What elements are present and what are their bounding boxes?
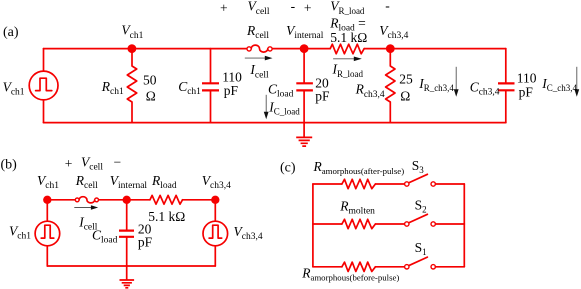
svg-text:pF: pF [315, 89, 330, 104]
svg-text:Vch1: Vch1 [9, 223, 31, 241]
wire: right vertical (b) [214, 200, 216, 266]
svg-text:pF: pF [224, 83, 239, 98]
wire: middle branch right (c) [435, 223, 464, 225]
svg-text:Vch3,4: Vch3,4 [234, 224, 263, 242]
capacitor C_ch1 plates [202, 83, 219, 90]
source V_ch1 (a) pulse glyph [36, 78, 52, 90]
svg-text:Vch3,4: Vch3,4 [202, 173, 231, 191]
switch S1 right circle [431, 265, 435, 269]
current arrow I_cell (b) [74, 207, 91, 209]
resistor R_load (b) zigzag [150, 195, 183, 204]
cell symbol R_cell (a) wavy [251, 45, 268, 52]
current arrow I_C_load (a) [265, 95, 267, 113]
svg-text:Rch1: Rch1 [101, 79, 124, 97]
node V_ch1 (a) dot [127, 44, 136, 53]
svg-text:5.1 kΩ: 5.1 kΩ [330, 30, 367, 45]
svg-text:Cch3,4: Cch3,4 [470, 79, 500, 97]
wire: bottom rail (a) [44, 122, 506, 124]
switch S3 right circle [431, 182, 435, 186]
svg-text:+: + [304, 0, 312, 15]
svg-text:pF: pF [138, 235, 153, 250]
wire: top branch to switch (c) [375, 183, 404, 185]
svg-text:25: 25 [399, 71, 413, 86]
svg-text:-: - [385, 0, 390, 13]
svg-text:Rcell: Rcell [75, 173, 98, 191]
node V_internal (b) dot [123, 196, 131, 204]
svg-text:(a): (a) [3, 25, 19, 40]
switch S2 blade [409, 214, 428, 223]
svg-text:Cload: Cload [268, 81, 294, 99]
svg-text:Vch1: Vch1 [37, 173, 59, 191]
node V_ch3,4 (b) dot [211, 196, 219, 204]
svg-text:Ω: Ω [400, 89, 410, 104]
ground (b) [120, 280, 135, 288]
resistor R_ch1 vertical [127, 49, 136, 123]
current arrow I_C_ch3,4 (a) [576, 67, 578, 90]
capacitor C_load (a) plates [296, 83, 313, 90]
switch S1 left circle [405, 265, 409, 269]
svg-text:Ramorphous(after-pulse): Ramorphous(after-pulse) [313, 159, 405, 176]
cell symbol R_cell (a) left circle [247, 47, 251, 51]
svg-text:Vch1: Vch1 [3, 79, 25, 97]
current arrow I_R_load (a) [333, 58, 354, 60]
wire: bottom branch left (c) [313, 266, 342, 268]
cell symbol R_cell (b) wavy [79, 197, 95, 203]
svg-text:-: - [291, 0, 296, 13]
svg-text:S3: S3 [412, 158, 425, 175]
svg-text:−: − [114, 154, 122, 169]
svg-text:Vcell: Vcell [248, 0, 270, 17]
wire: top rail R_cell to V_internal [272, 48, 330, 50]
wire: middle branch left (c) [313, 223, 342, 225]
capacitor C_load (a) leads + ground lead [303, 49, 305, 138]
capacitor C_load (b) leads + ground lead [126, 200, 128, 280]
svg-text:Cch1: Cch1 [178, 79, 201, 97]
svg-text:Rcell: Rcell [246, 23, 269, 41]
svg-text:S1: S1 [415, 240, 427, 257]
wire: middle branch to switch (c) [375, 223, 404, 225]
svg-text:(b): (b) [1, 157, 18, 172]
svg-text:Vinternal: Vinternal [110, 173, 148, 191]
svg-text:+: + [220, 0, 228, 15]
svg-text:IC_load: IC_load [268, 100, 300, 117]
wire: top branch right (c) [435, 183, 464, 185]
svg-text:IC_ch3,4: IC_ch3,4 [541, 76, 577, 93]
current arrow I_R_ch3,4 (a) [455, 67, 457, 90]
ground (a) [296, 137, 312, 146]
wire: left vertical to source V_ch1 (a) [43, 49, 45, 123]
svg-text:Icell: Icell [249, 62, 269, 80]
node V_ch3,4 (a) dot [386, 44, 395, 53]
wire: top branch left (c) [313, 183, 342, 185]
capacitor C_ch1 leads [210, 49, 212, 123]
switch S3 blade [409, 174, 428, 183]
svg-text:Vch1: Vch1 [121, 23, 143, 41]
capacitor C_ch3,4 plates [498, 83, 515, 90]
resistor R_amorphous(before-pulse) zigzag [342, 262, 376, 271]
svg-text:pF: pF [519, 84, 534, 99]
wire: right vertical (c) [463, 184, 465, 267]
resistor R_amorphous(after-pulse) zigzag [342, 179, 376, 188]
cell symbol R_cell (a) right circle [268, 47, 272, 51]
svg-text:Rch3,4: Rch3,4 [355, 82, 385, 100]
svg-text:IR_load: IR_load [332, 62, 364, 79]
svg-text:50: 50 [143, 72, 157, 87]
svg-text:Cload: Cload [92, 228, 118, 246]
cell symbol R_cell (b) left circle [75, 198, 79, 202]
svg-text:Ω: Ω [146, 88, 156, 103]
source V_ch1 (b) pulse glyph [41, 225, 54, 238]
source V_ch3,4 (b) pulse glyph [209, 225, 222, 238]
svg-text:IR_ch3,4: IR_ch3,4 [418, 76, 454, 93]
svg-text:Rmolten: Rmolten [339, 198, 375, 216]
wire: top rail right (b) [183, 199, 216, 201]
switch S2 right circle [431, 222, 435, 226]
cell symbol R_cell (b) right circle [95, 198, 99, 202]
wire: bottom branch to switch (c) [375, 266, 404, 268]
resistor R_ch3,4 vertical [386, 49, 395, 123]
source V_ch1 (a) circle [29, 71, 58, 100]
svg-text:S2: S2 [415, 197, 427, 214]
source V_ch3,4 (b) circle [203, 221, 228, 246]
switch S3 left circle [405, 182, 409, 186]
svg-text:(c): (c) [280, 160, 296, 175]
svg-text:VR_load: VR_load [330, 0, 365, 16]
wire: left vertical (b) [46, 200, 48, 266]
node V_ch1 (b) dot [43, 196, 51, 204]
source V_ch1 (b) circle [35, 221, 60, 246]
wire: left vertical (c) [312, 184, 314, 267]
wire: bottom branch right (c) [435, 266, 464, 268]
switch S2 left circle [405, 222, 409, 226]
svg-text:Vinternal: Vinternal [286, 23, 324, 41]
node V_internal (a) dot [300, 44, 309, 53]
current arrow I_cell (a) [245, 57, 266, 59]
wire: top rail (b) [47, 199, 150, 201]
switch S1 blade [409, 257, 428, 266]
capacitor C_ch3,4 leads [505, 49, 507, 123]
wire: top rail V_ch3,4 to right corner [364, 48, 506, 50]
wire: bottom rail (b) [47, 265, 215, 267]
wire: top rail left segment V_ch1 to R_cell [44, 48, 248, 50]
svg-text:Rload: Rload [151, 173, 177, 191]
resistor R_load (a) zigzag [330, 44, 364, 54]
capacitor C_load (b) plates [119, 231, 134, 237]
svg-text:5.1 kΩ: 5.1 kΩ [148, 209, 185, 224]
svg-text:Vcell: Vcell [81, 154, 103, 172]
resistor R_molten zigzag [342, 219, 376, 228]
svg-text:+: + [65, 156, 73, 171]
svg-text:Vch3,4: Vch3,4 [379, 23, 408, 41]
svg-text:110: 110 [517, 70, 537, 85]
